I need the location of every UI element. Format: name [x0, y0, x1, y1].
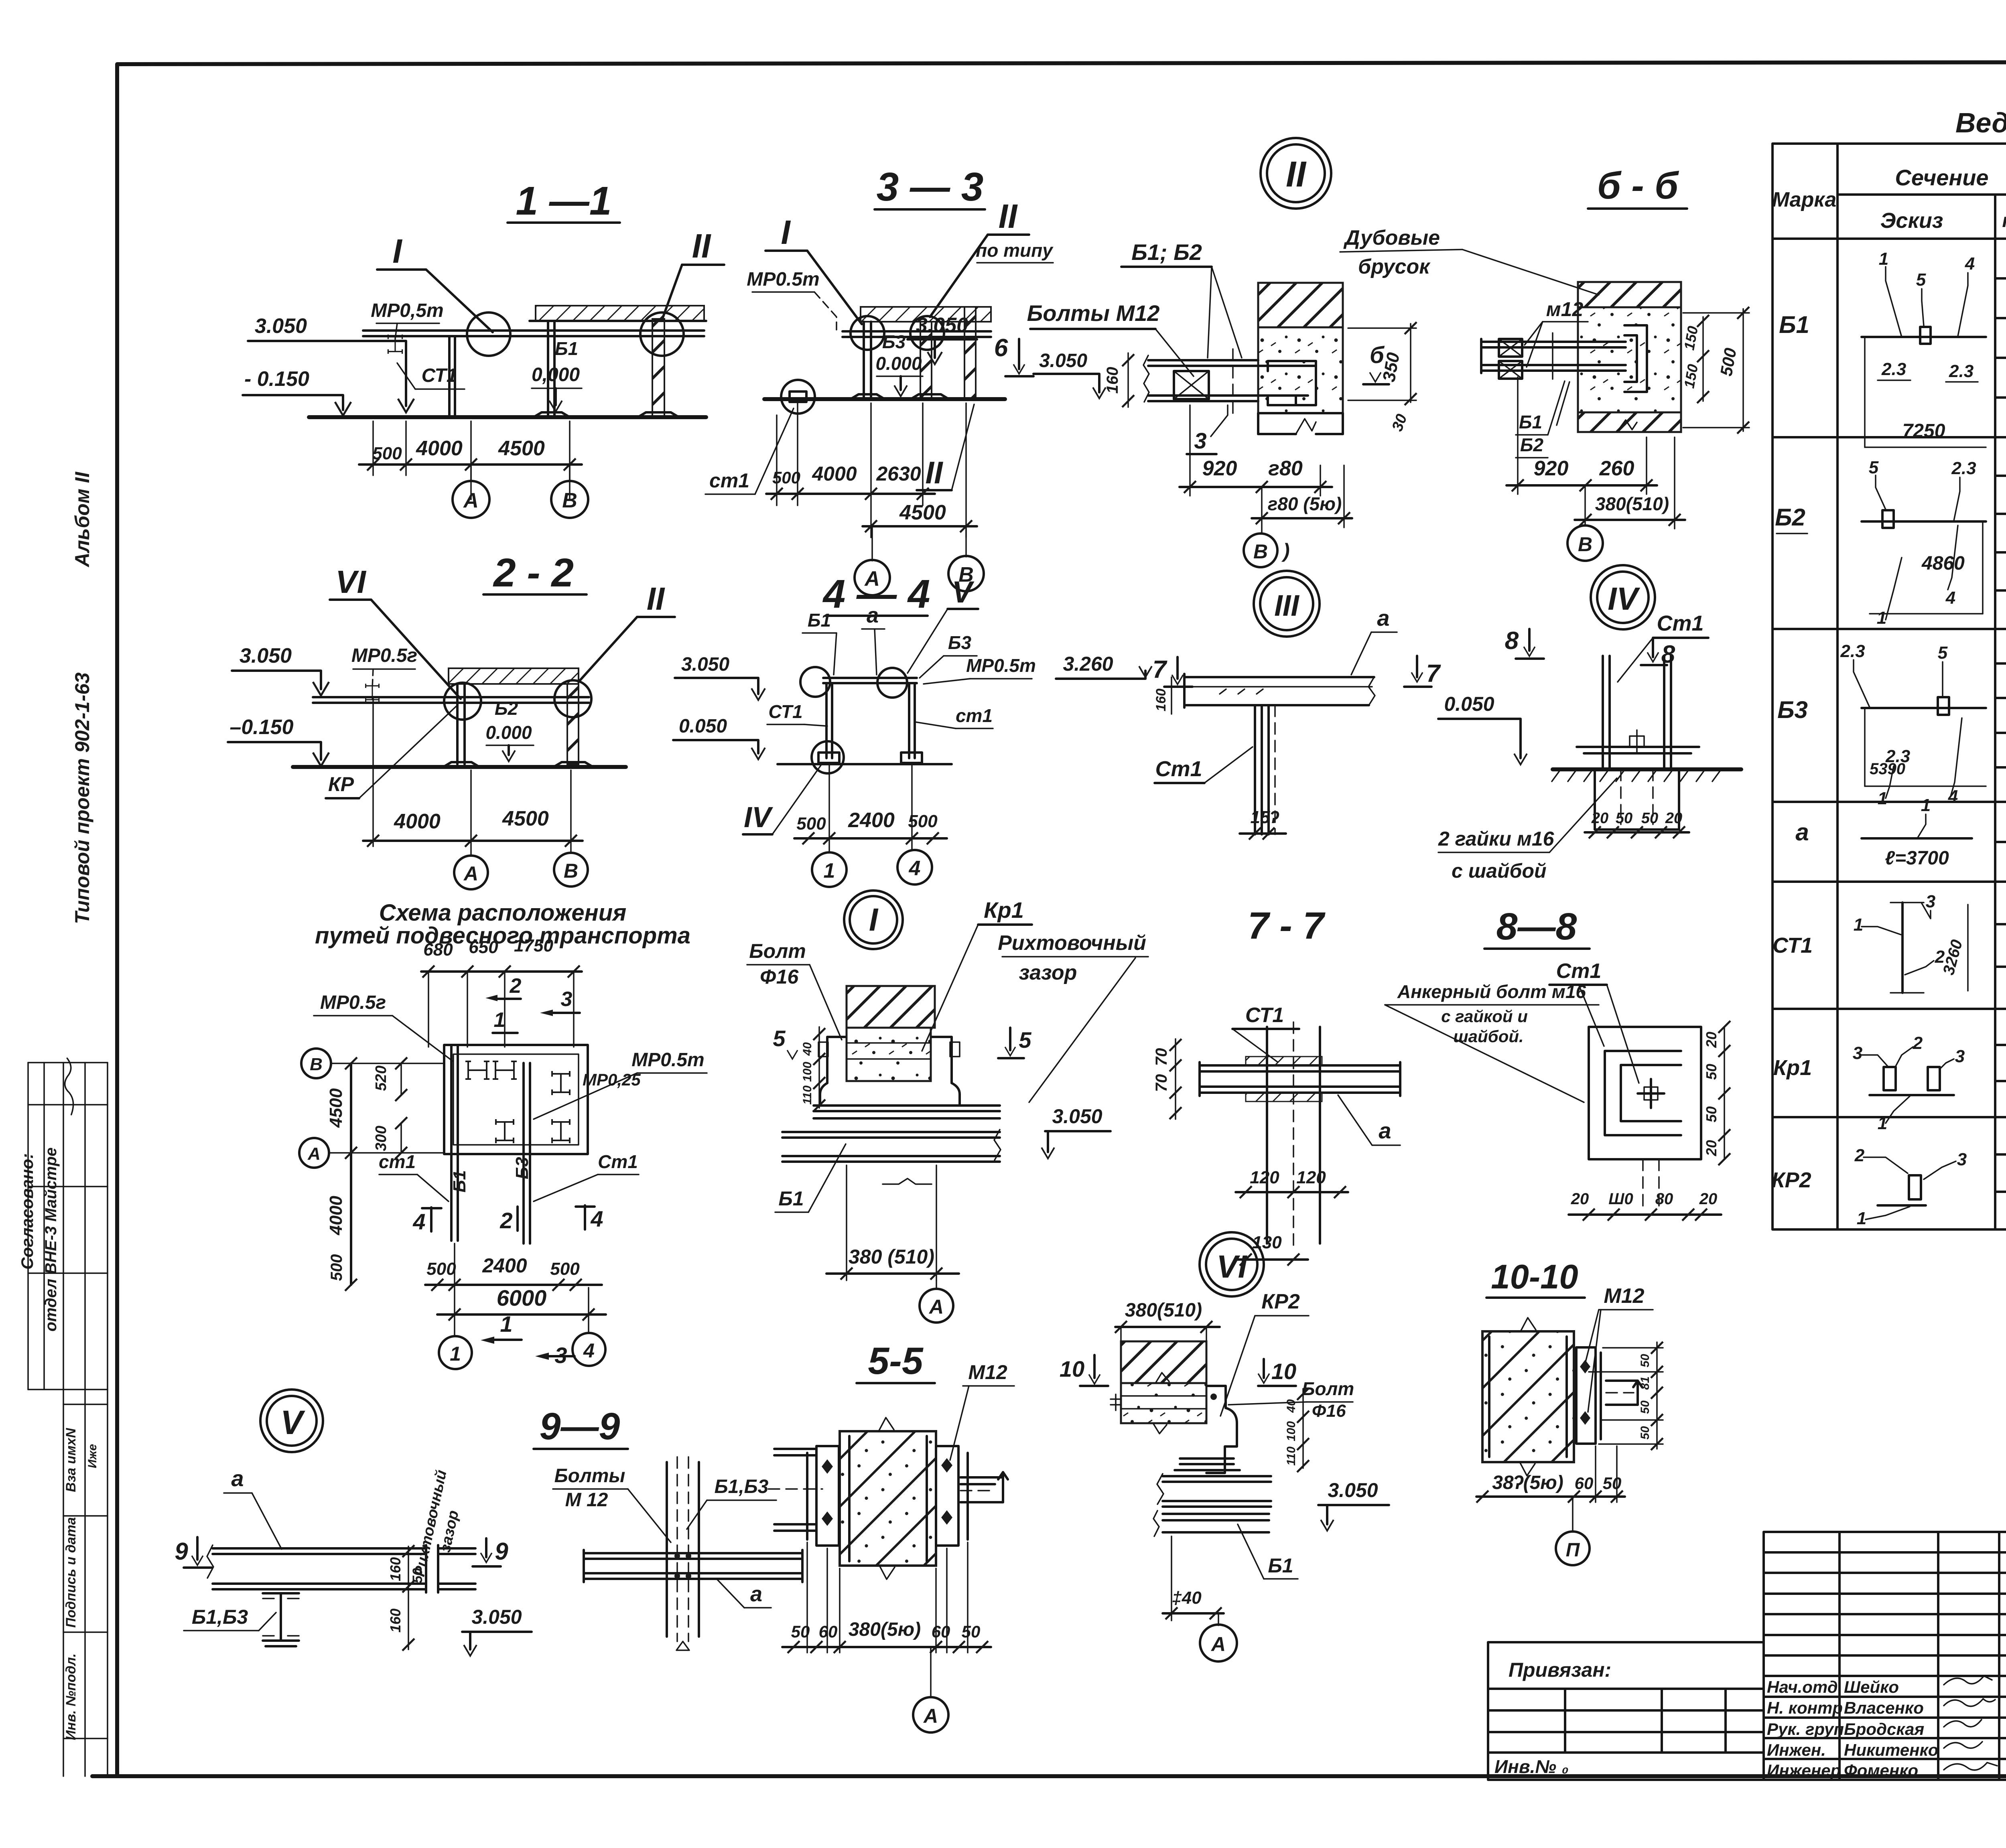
svg-text:5-5: 5-5: [868, 1340, 923, 1382]
bolt block: [1174, 371, 1209, 399]
svg-text:110: 110: [1285, 1446, 1298, 1466]
svg-text:5: 5: [1869, 458, 1879, 477]
long witness line: [372, 697, 374, 846]
svg-text:100: 100: [1285, 1421, 1298, 1441]
svg-text:3: 3: [1853, 1043, 1862, 1063]
footings: [818, 753, 839, 763]
svg-text:2.3: 2.3: [1881, 359, 1906, 379]
svg-text:Б1: Б1: [778, 1187, 804, 1210]
right rotated dims: [1724, 1027, 1725, 1159]
grid circle 4: [897, 850, 932, 884]
plate outer: [1589, 1027, 1701, 1159]
svg-text:160: 160: [387, 1557, 404, 1581]
svg-text:Б1,Б3: Б1,Б3: [715, 1476, 769, 1497]
svg-text:3 — 3: 3 — 3: [877, 164, 984, 209]
svg-text:Б3: Б3: [512, 1157, 532, 1179]
svg-text:1: 1: [494, 1008, 506, 1032]
svg-text:1: 1: [450, 1343, 461, 1365]
svg-text:Б1: Б1: [555, 338, 578, 359]
anchor bolt cross: [1650, 1079, 1652, 1108]
svg-text:4860: 4860: [1921, 553, 1965, 574]
svg-text:0,000: 0,000: [532, 364, 580, 385]
svg-text:I: I: [869, 902, 879, 937]
wall concrete middle: [1578, 307, 1681, 412]
bolt dots: [674, 1553, 680, 1559]
svg-text:Рук. груп: Рук. груп: [1767, 1720, 1844, 1738]
svg-text:СТ1: СТ1: [768, 701, 802, 722]
right wall column hatched: [964, 307, 976, 399]
left margin signature squiggle: [58, 1058, 82, 1115]
svg-text:500: 500: [772, 468, 800, 487]
roof slab: [449, 668, 579, 684]
svg-text:а: а: [750, 1582, 762, 1606]
svg-text:4: 4: [412, 1209, 425, 1234]
dashed bolt axis: [1232, 349, 1234, 417]
svg-text:520: 520: [373, 1065, 390, 1091]
svg-text:с шайбой: с шайбой: [1452, 860, 1547, 882]
svg-text:3.050: 3.050: [1039, 350, 1087, 371]
svg-text:60: 60: [1575, 1474, 1594, 1493]
title block signature table left part: [1764, 1532, 2006, 1780]
svg-text:9: 9: [175, 1538, 188, 1565]
svg-text:20: 20: [1665, 810, 1682, 827]
svg-text:0.000: 0.000: [485, 722, 532, 743]
svg-text:7 - 7: 7 - 7: [1248, 905, 1326, 947]
svg-text:поз: поз: [2002, 210, 2006, 231]
svg-text:5: 5: [1938, 643, 1948, 663]
svg-text:3.050: 3.050: [471, 1606, 522, 1628]
svg-text:Ст1: Ст1: [1155, 757, 1202, 781]
svg-text:Б3: Б3: [1777, 696, 1808, 723]
svg-text:1: 1: [1878, 789, 1887, 808]
grid circle P: [1572, 1497, 1574, 1532]
node circles: [800, 667, 830, 697]
channel inside: [1605, 1051, 1681, 1135]
svg-text:1750: 1750: [514, 936, 553, 955]
svg-text:4: 4: [583, 1339, 595, 1362]
horizontal beam: [584, 1552, 802, 1554]
svg-text:Б3: Б3: [948, 632, 972, 653]
svg-text:9—9: 9—9: [540, 1405, 620, 1448]
beam stub right: [1606, 1379, 1638, 1382]
eskiz sketch a: [1862, 795, 1972, 869]
svg-text:путей подвесного транспорта: путей подвесного транспорта: [315, 923, 690, 949]
svg-text:4: 4: [909, 857, 921, 880]
svg-text:3.050: 3.050: [240, 644, 292, 667]
right wall hatched: [567, 684, 579, 764]
svg-text:Б1: Б1: [450, 1170, 469, 1193]
svg-text:38ʔ(5ю): 38ʔ(5ю): [1492, 1472, 1563, 1493]
svg-text:380(510): 380(510): [1125, 1300, 1202, 1321]
svg-text:ст1: ст1: [379, 1151, 416, 1172]
svg-text:160: 160: [1153, 689, 1169, 712]
svg-text:М12: М12: [1604, 1284, 1644, 1308]
svg-text:4000: 4000: [394, 810, 441, 833]
svg-text:СТ1: СТ1: [1773, 933, 1813, 957]
left bolt plate: [816, 1446, 839, 1546]
svg-text:50: 50: [1639, 1354, 1652, 1367]
svg-text:Согласовано:: Согласовано:: [18, 1153, 37, 1270]
svg-text:60: 60: [819, 1622, 838, 1641]
svg-text:1: 1: [1879, 249, 1888, 269]
svg-text:Сечение: Сечение: [1895, 165, 1988, 190]
monorail beam: [313, 696, 589, 698]
floor line: [309, 415, 706, 419]
rail beam B1: [450, 1045, 453, 1241]
beam: [213, 1547, 426, 1550]
svg-text:Инв. №подл.: Инв. №подл.: [63, 1653, 79, 1740]
svg-text:3.050: 3.050: [1328, 1479, 1378, 1501]
svg-text:6: 6: [994, 334, 1008, 362]
cut mark 9 right: [481, 1553, 492, 1562]
svg-text:1 —1: 1 —1: [516, 179, 611, 223]
svg-text:II: II: [925, 455, 943, 490]
beam from left: [1481, 341, 1626, 343]
svg-text:Дубовые: Дубовые: [1343, 226, 1440, 250]
svg-text:2.3: 2.3: [1840, 641, 1865, 661]
svg-text:Нач.отд: Нач.отд: [1767, 1678, 1838, 1696]
svg-text:50: 50: [1641, 810, 1658, 827]
svg-text:А: А: [1210, 1633, 1226, 1655]
svg-text:VI: VI: [335, 564, 366, 600]
svg-text:ст1: ст1: [956, 705, 993, 726]
svg-text:IV: IV: [1608, 581, 1640, 617]
node VI double circle: [1200, 1232, 1264, 1296]
dim line row1: [766, 493, 935, 495]
signature rows texts: [1767, 1678, 1938, 1780]
svg-text:П: П: [1566, 1540, 1580, 1561]
svg-text:4000: 4000: [416, 437, 463, 460]
svg-text:Бродская: Бродская: [1844, 1720, 1924, 1738]
svg-text:70: 70: [1153, 1048, 1170, 1066]
node circle I: [467, 312, 510, 356]
monorail beam: [363, 329, 704, 332]
eskiz sketch B3: [1840, 641, 1986, 808]
rail beam B3: [522, 1063, 525, 1243]
svg-text:20: 20: [1703, 1140, 1720, 1156]
wall brick top: [1578, 282, 1681, 307]
svg-text:Схема расположения: Схема расположения: [379, 900, 627, 926]
anchor cross: [1630, 736, 1644, 747]
signature squiggles: [1944, 1676, 1997, 1770]
svg-text:м12: м12: [1546, 298, 1584, 321]
svg-text:4: 4: [590, 1206, 603, 1231]
svg-text:КР2: КР2: [1261, 1290, 1300, 1313]
svg-text:III: III: [1274, 589, 1299, 622]
wall hatched block: [1482, 1331, 1574, 1462]
svg-text:2: 2: [510, 974, 522, 998]
svg-text:120: 120: [1296, 1168, 1326, 1187]
node circles: [851, 316, 884, 350]
bolt strips: [1246, 1057, 1322, 1065]
svg-text:5: 5: [1916, 270, 1926, 290]
embedded channel: [1268, 361, 1316, 405]
svg-text:160: 160: [387, 1609, 404, 1633]
grid circle B: [1261, 487, 1263, 534]
column CT1: [1254, 705, 1256, 834]
svg-text:500: 500: [550, 1259, 580, 1279]
grid circle 4: [573, 1333, 605, 1366]
svg-text:Иже: Иже: [86, 1444, 99, 1468]
svg-text:Болты М12: Болты М12: [1027, 300, 1160, 326]
svg-text:Б2: Б2: [1520, 434, 1544, 455]
svg-text:680: 680: [423, 940, 453, 959]
svg-text:920: 920: [1202, 457, 1237, 480]
frame bottom border: [92, 1774, 2006, 1778]
wall concrete middle: [1258, 327, 1343, 413]
column B1: [547, 321, 549, 417]
brick hatch block: [847, 986, 935, 1028]
svg-text:а: а: [1379, 1118, 1391, 1143]
svg-text:Н. контр: Н. контр: [1767, 1698, 1843, 1717]
node circle II: [640, 312, 684, 356]
svg-text:МР0,25: МР0,25: [583, 1070, 641, 1089]
svg-text:Кр1: Кр1: [984, 897, 1024, 923]
svg-text:II: II: [692, 227, 711, 265]
node II double circle: [1261, 138, 1331, 209]
svg-text:2400: 2400: [482, 1254, 527, 1277]
svg-text:Ст1: Ст1: [1657, 611, 1703, 635]
svg-text:Φ16: Φ16: [1312, 1401, 1346, 1421]
grid circle B row: [301, 1049, 331, 1078]
right rotated dims 150 150 500: [1702, 317, 1704, 401]
svg-text:Б2: Б2: [495, 698, 518, 719]
svg-text:120: 120: [1250, 1168, 1279, 1187]
node V double circle: [260, 1390, 323, 1452]
cut mark 7 right: [1411, 672, 1423, 682]
svg-text:II: II: [1286, 154, 1307, 195]
svg-text:V: V: [952, 575, 975, 609]
svg-text:3.050: 3.050: [681, 654, 729, 675]
svg-text:2400: 2400: [848, 809, 895, 832]
svg-text:а: а: [231, 1466, 244, 1491]
svg-text:‡40: ‡40: [1172, 1588, 1202, 1608]
side bolts: [818, 1042, 828, 1057]
svg-text:2: 2: [1913, 1033, 1923, 1053]
svg-text:300: 300: [373, 1126, 390, 1151]
svg-text:380(5ю): 380(5ю): [849, 1619, 921, 1640]
column verticals: [1266, 1027, 1268, 1243]
svg-text:6000: 6000: [497, 1285, 547, 1310]
svg-text:50: 50: [1603, 1474, 1622, 1493]
svg-text:50: 50: [1703, 1106, 1720, 1122]
svg-text:50: 50: [1616, 810, 1632, 827]
grid circle 1: [439, 1336, 472, 1369]
svg-text:9: 9: [495, 1538, 508, 1565]
svg-text:А: А: [463, 489, 479, 512]
concrete block: [847, 1028, 931, 1081]
wall brick bottom: [1578, 412, 1681, 432]
small vertical dims 520 300: [400, 1063, 402, 1095]
svg-text:1: 1: [824, 859, 835, 882]
I-beam glyphs in plan: [465, 1061, 489, 1079]
svg-text:3: 3: [1957, 1150, 1967, 1169]
svg-text:Б1: Б1: [1779, 311, 1809, 338]
cut mark 8 right: [1647, 652, 1659, 662]
left beam coming in: [774, 1448, 816, 1450]
svg-text:50: 50: [1703, 1064, 1720, 1080]
svg-text:Власенко: Власенко: [1844, 1698, 1924, 1717]
svg-text:А: А: [463, 862, 478, 885]
svg-text:7250: 7250: [1902, 420, 1945, 442]
svg-text:3: 3: [1955, 1047, 1965, 1066]
svg-text:1: 1: [1921, 795, 1931, 815]
svg-text:Б2: Б2: [1775, 504, 1805, 531]
grid circle B: [569, 465, 571, 481]
svg-text:1: 1: [1878, 1114, 1887, 1133]
svg-text:260: 260: [1599, 457, 1634, 480]
left column: [863, 322, 865, 399]
eskiz sketch CT1: [1854, 892, 1968, 993]
right rotated dims: [1656, 1342, 1658, 1449]
svg-text:А: А: [307, 1144, 321, 1164]
svg-text:Ш0: Ш0: [1608, 1190, 1633, 1208]
svg-text:V: V: [280, 1404, 305, 1441]
node IV double circle: [1591, 565, 1655, 629]
svg-text:КР: КР: [328, 773, 354, 795]
svg-text:Кр1: Кр1: [1773, 1056, 1812, 1080]
svg-text:ст1: ст1: [709, 469, 749, 492]
svg-text:I: I: [392, 232, 402, 270]
svg-text:2.3: 2.3: [1949, 361, 1974, 381]
right rotated dims: [1302, 1389, 1304, 1468]
left column: [456, 684, 459, 764]
svg-text:3: 3: [561, 988, 573, 1011]
grid circle 1: [812, 852, 847, 887]
concrete wall block: [840, 1431, 936, 1566]
svg-text:Болт: Болт: [749, 940, 806, 962]
grid circle A row: [299, 1138, 329, 1168]
svg-text:а: а: [867, 603, 879, 627]
right beam stub with arrow: [960, 1476, 1003, 1479]
svg-text:Инв.№ ₀: Инв.№ ₀: [1494, 1756, 1569, 1777]
stand columns: [1602, 656, 1604, 769]
left dims 70 70: [1175, 1039, 1176, 1119]
svg-text:Б1: Б1: [808, 610, 831, 631]
svg-text:2 гайки м16: 2 гайки м16: [1438, 828, 1555, 850]
grid circle A: [470, 465, 472, 481]
svg-text:II: II: [999, 197, 1018, 235]
svg-text:Привязан:: Привязан:: [1509, 1659, 1611, 1681]
eskiz sketch Kp1: [1853, 1033, 1965, 1133]
svg-text:брусок: брусок: [1358, 255, 1431, 278]
svg-text:4500: 4500: [899, 501, 946, 524]
dim line: [359, 463, 582, 466]
svg-text:50: 50: [1639, 1400, 1652, 1414]
svg-text:7: 7: [1426, 660, 1441, 688]
grid circle A: [1218, 1613, 1219, 1625]
svg-text:3.050: 3.050: [1052, 1105, 1102, 1128]
svg-text:Вза имхN: Вза имхN: [63, 1428, 79, 1492]
svg-text:Анкерный болт м16: Анкерный болт м16: [1397, 981, 1586, 1002]
beam horizontals: [1200, 1064, 1400, 1067]
buried anchor box: [1595, 769, 1679, 830]
right stub beam: [438, 1547, 475, 1550]
svg-text:100: 100: [801, 1062, 814, 1082]
svg-text:А: А: [928, 1296, 944, 1318]
node I double circle: [844, 891, 903, 949]
svg-text:500: 500: [426, 1259, 456, 1279]
svg-text:500: 500: [328, 1254, 345, 1281]
svg-text:20: 20: [1571, 1190, 1589, 1208]
left vertical dim chain: [350, 1063, 352, 1285]
svg-text:СТ1: СТ1: [422, 365, 457, 386]
svg-text:4000: 4000: [812, 463, 857, 485]
floor line: [778, 763, 952, 765]
svg-text:В: В: [1578, 533, 1592, 556]
portal frame top beam: [823, 677, 917, 679]
svg-text:В: В: [310, 1055, 323, 1074]
table header lines: [1773, 195, 2006, 239]
svg-text:7: 7: [1153, 656, 1167, 684]
svg-text:с гайкой и: с гайкой и: [1441, 1007, 1528, 1026]
svg-text:Б1: Б1: [1519, 412, 1542, 432]
bottom arrow: [676, 1641, 689, 1650]
svg-text:В: В: [562, 489, 577, 512]
svg-text:по типу: по типу: [976, 240, 1054, 261]
beam profile: [1148, 359, 1258, 361]
svg-text:0.000: 0.000: [875, 353, 922, 374]
svg-text:920: 920: [1534, 457, 1569, 480]
floor node circle: [781, 380, 815, 414]
svg-text:Альбом II: Альбом II: [71, 471, 93, 568]
svg-text:А: А: [923, 1705, 938, 1727]
bolt squares with X: [1499, 339, 1522, 357]
svg-text:Рихтовочный: Рихтовочный: [998, 931, 1146, 955]
privyazan box: [1488, 1642, 1764, 1780]
svg-text:В: В: [1253, 540, 1268, 563]
middle column hatched: [920, 322, 932, 399]
table sub-row lines: [1995, 278, 2006, 1192]
svg-text:а: а: [1377, 605, 1389, 631]
svg-text:160: 160: [1104, 367, 1121, 394]
wall bottom strip: [1258, 412, 1343, 414]
grid circle A: [930, 1647, 932, 1698]
beam line: [843, 330, 991, 333]
svg-text:110: 110: [801, 1085, 814, 1105]
svg-text:50: 50: [1639, 1426, 1652, 1440]
svg-text:20: 20: [1703, 1032, 1720, 1048]
svg-text:20: 20: [1591, 810, 1608, 827]
beam B1 lower: [1163, 1513, 1269, 1515]
svg-text:2 - 2: 2 - 2: [493, 550, 574, 595]
wall brick hatch: [1121, 1341, 1206, 1383]
svg-text:МР0.5г: МР0.5г: [320, 992, 386, 1013]
svg-text:1: 1: [1877, 608, 1886, 628]
svg-text:2.3: 2.3: [1951, 458, 1976, 478]
svg-text:0.050: 0.050: [1444, 693, 1494, 715]
svg-text:а: а: [1795, 819, 1809, 846]
svg-text:Подпись и дата: Подпись и дата: [63, 1517, 79, 1628]
svg-text:10-10: 10-10: [1491, 1258, 1578, 1296]
svg-text:Марка: Марка: [1772, 188, 1837, 211]
vertical member: [666, 1462, 668, 1637]
svg-text:380 (510): 380 (510): [849, 1246, 934, 1268]
svg-text:Инженер: Инженер: [1767, 1761, 1841, 1780]
svg-text:4: 4: [1965, 254, 1975, 274]
grid circle B: [1584, 485, 1586, 525]
svg-text:3.260: 3.260: [1063, 653, 1113, 675]
bolster plates under bracket: [1180, 1457, 1234, 1460]
svg-text:Б1: Б1: [1268, 1554, 1293, 1577]
svg-text:МР0.5т: МР0.5т: [966, 655, 1036, 676]
svg-text:МР0.5г: МР0.5г: [351, 645, 417, 666]
right side angle bracket: [932, 1037, 960, 1106]
svg-text:М12: М12: [968, 1361, 1007, 1383]
svg-text:3.050: 3.050: [255, 314, 307, 338]
svg-text:10: 10: [1271, 1359, 1296, 1384]
bolt tails dashed: [1642, 1159, 1644, 1211]
